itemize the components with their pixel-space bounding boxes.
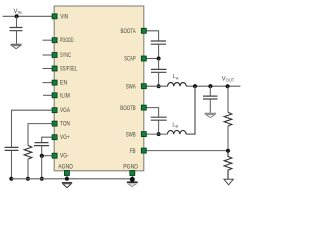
pin SWA	[141, 84, 146, 89]
pin VG-	[52, 153, 57, 158]
wire LB out up to VOUT rail	[186, 86, 195, 134]
svg-text:FB: FB	[130, 148, 136, 155]
pin VGA	[52, 108, 57, 113]
wire ILIM stub	[43, 94, 52, 96]
node PGND rail junction	[130, 177, 135, 182]
wire LA out to VOUT rail	[186, 85, 240, 87]
node SWA junction	[157, 84, 161, 88]
svg-text:VIN: VIN	[60, 13, 68, 20]
svg-text:SCAP: SCAP	[124, 56, 136, 63]
node VG- junction	[40, 154, 44, 158]
wire R1 bottom to rail	[27, 159, 29, 179]
node VG- rail junction	[40, 177, 44, 181]
svg-text:PGOOD: PGOOD	[60, 37, 74, 44]
node VOUT junction	[226, 84, 230, 88]
pin PGND	[130, 171, 135, 176]
capacitor C4 (BOOTA cap)	[151, 41, 166, 44]
node C2 rail junction	[9, 177, 13, 181]
wire BOOTA to C4	[146, 31, 158, 41]
inductor LB	[168, 131, 187, 135]
wire SCAP to C5	[158, 59, 160, 70]
capacitor C7 (BOOTB cap)	[151, 117, 167, 120]
svg-text:VGA: VGA	[60, 107, 70, 114]
wire C5 bottom to SWA node	[158, 72, 160, 86]
pin AGND	[64, 171, 69, 176]
wire SYNC stub	[43, 54, 53, 56]
pin BOOTA	[141, 28, 146, 33]
capacitor C5 (SCAP cap)	[151, 69, 167, 72]
wire EN stub	[43, 82, 53, 84]
wire C7 bottom to SWB node	[158, 120, 160, 134]
capacitor C6 (output cap)	[203, 96, 218, 99]
svg-text:VG-: VG-	[60, 153, 69, 160]
wire SWA to inductor	[146, 85, 167, 87]
svg-text:AGND: AGND	[58, 163, 73, 170]
wire AGND drop	[66, 175, 68, 179]
pin BOOTB	[141, 105, 146, 110]
pin SYNC	[52, 53, 57, 58]
pin SS/FSEL	[52, 66, 57, 71]
wire VIN cap bottom	[16, 31, 18, 44]
resistor R1 (TON resistor)	[24, 145, 32, 159]
inductor LA	[168, 83, 187, 87]
wire ground rail	[11, 178, 132, 180]
pin PGOOD	[52, 38, 57, 43]
resistor R3 (lower divider)	[224, 151, 232, 179]
wire SWB to inductor	[146, 133, 167, 135]
svg-text:SYNC: SYNC	[60, 52, 71, 59]
svg-text:VOUT: VOUT	[222, 76, 235, 82]
wire VOUT to R2	[227, 86, 229, 112]
svg-text:SWA: SWA	[126, 83, 136, 90]
pin SCAP	[141, 56, 146, 61]
op-amp U1 (converter IC body)	[54, 6, 144, 171]
wire C6 bottom	[209, 99, 211, 113]
node SWB junction	[157, 132, 161, 136]
pin VIN	[52, 14, 57, 19]
svg-text:LA: LA	[173, 74, 179, 80]
pin FB	[141, 148, 146, 153]
pin ILIM	[52, 93, 57, 98]
svg-text:VG+: VG+	[60, 134, 70, 141]
node R1 rail junction	[26, 177, 30, 181]
resistor R2 (upper divider)	[224, 112, 232, 126]
ground divider	[224, 179, 233, 185]
wire VG+ to C3	[42, 137, 52, 142]
node AGND rail junction	[65, 177, 69, 181]
wire C3 bottom to VG- node	[41, 146, 43, 156]
svg-text:EN: EN	[60, 80, 67, 87]
wire C2 bottom to rail	[11, 150, 13, 178]
svg-text:BOOTA: BOOTA	[121, 28, 137, 35]
svg-text:BOOTB: BOOTB	[120, 105, 135, 112]
wire VGA to C2	[12, 110, 53, 147]
wire C4 bottom to SCAP node	[158, 44, 160, 58]
wire VG- down to rail	[41, 156, 43, 179]
svg-text:SS/FSEL: SS/FSEL	[60, 66, 78, 73]
wire BOOTB to C7	[146, 108, 158, 117]
capacitor C3 (VG cap)	[34, 143, 49, 146]
wire FB	[146, 150, 228, 152]
svg-text:LB: LB	[172, 122, 178, 128]
node SCAP junction	[157, 57, 161, 61]
capacitor C2 (VGA cap)	[5, 147, 19, 150]
node output cap junction	[208, 84, 212, 88]
wire VG-	[42, 155, 52, 157]
capacitor C1 (input cap)	[10, 28, 23, 31]
ground input cap	[11, 43, 22, 45]
ground PGND	[127, 181, 138, 183]
svg-text:ILIM: ILIM	[60, 92, 70, 99]
svg-text:SWB: SWB	[126, 131, 136, 138]
wire VIN input	[3, 15, 53, 17]
svg-text:PGND: PGND	[123, 163, 138, 170]
node LA/LB tie junction	[193, 84, 197, 88]
pin VG+	[52, 135, 57, 140]
wire PGND drop	[131, 175, 133, 179]
pin EN	[52, 80, 57, 85]
wire TON to R1	[28, 124, 52, 146]
pin TON	[52, 121, 57, 126]
wire PGOOD stub	[43, 39, 53, 41]
ground output cap	[205, 112, 216, 114]
wire R2 to FB node	[227, 126, 229, 151]
svg-text:TON: TON	[60, 121, 70, 128]
node VIN input junction	[15, 14, 19, 18]
wire output cap drop	[209, 86, 211, 96]
node FB junction	[226, 149, 230, 153]
wire VIN cap top	[16, 16, 18, 27]
svg-text:VIN: VIN	[14, 9, 22, 15]
ground AGND	[62, 182, 72, 184]
wire SS/FSEL stub	[43, 68, 53, 70]
pin SWB	[141, 132, 146, 137]
wire SCAP	[146, 58, 158, 60]
